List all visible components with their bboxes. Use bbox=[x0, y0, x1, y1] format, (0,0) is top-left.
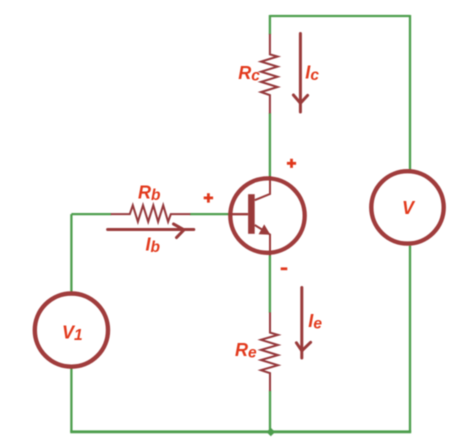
svg-text:Re: Re bbox=[235, 340, 257, 362]
svg-text:V: V bbox=[402, 198, 416, 218]
svg-text:Ic: Ic bbox=[305, 62, 319, 84]
svg-text:Rb: Rb bbox=[138, 182, 161, 204]
svg-text:Ib: Ib bbox=[146, 235, 161, 257]
svg-text:Ie: Ie bbox=[308, 311, 322, 333]
svg-text:Rc: Rc bbox=[238, 63, 260, 85]
